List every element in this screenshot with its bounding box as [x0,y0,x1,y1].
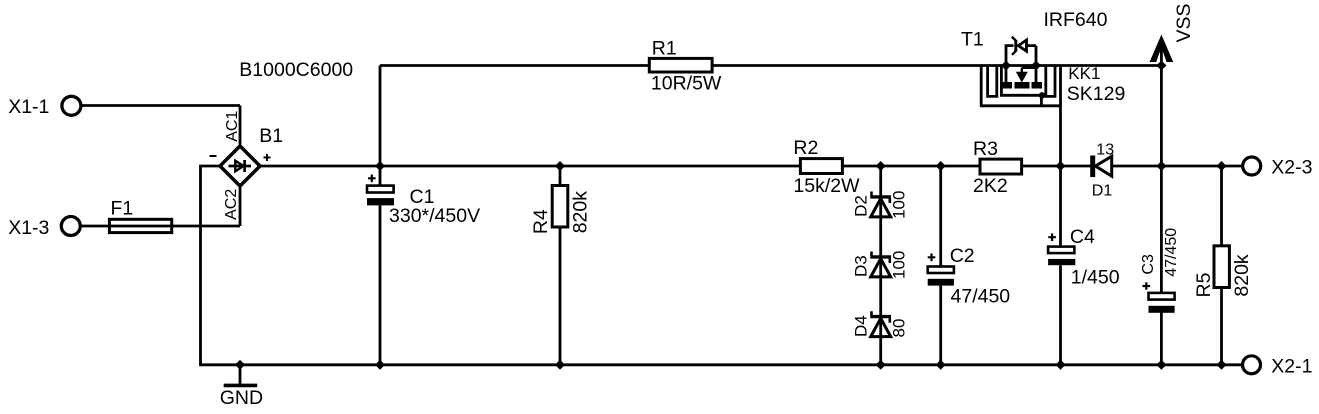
svg-text:IRF640: IRF640 [1044,9,1108,31]
svg-text:10R/5W: 10R/5W [651,72,722,94]
svg-text:B1: B1 [259,125,283,147]
svg-text:B1000C6000: B1000C6000 [239,59,353,81]
svg-text:80: 80 [889,319,908,338]
svg-text:F1: F1 [111,198,134,220]
svg-text:1/450: 1/450 [1071,266,1120,288]
svg-text:R5: R5 [1193,272,1215,297]
svg-text:C3: C3 [1140,254,1157,275]
svg-text:X2-3: X2-3 [1271,157,1312,179]
svg-text:330*/450V: 330*/450V [389,205,480,227]
svg-text:AC2: AC2 [223,189,240,220]
svg-text:820k: 820k [1231,254,1253,297]
svg-text:KK1: KK1 [1068,64,1100,83]
svg-text:D2: D2 [851,195,870,217]
svg-text:2K2: 2K2 [973,175,1008,197]
svg-text:SK129: SK129 [1067,83,1126,105]
svg-text:13: 13 [1096,142,1114,159]
svg-text:R4: R4 [530,209,552,234]
svg-text:X1-1: X1-1 [8,96,49,118]
svg-text:100: 100 [889,251,908,279]
svg-text:X2-1: X2-1 [1271,355,1312,377]
svg-text:820k: 820k [570,191,592,234]
svg-text:R2: R2 [793,137,818,159]
svg-text:GND: GND [220,387,263,409]
svg-text:T1: T1 [961,28,984,50]
svg-text:D1: D1 [1092,182,1113,199]
svg-text:D4: D4 [851,315,870,337]
svg-text:R3: R3 [973,138,998,160]
svg-text:C2: C2 [950,245,975,267]
svg-text:47/450: 47/450 [1163,228,1180,277]
svg-text:R1: R1 [652,38,677,60]
svg-text:D3: D3 [851,255,870,277]
svg-text:47/450: 47/450 [951,286,1011,308]
svg-text:VSS: VSS [1173,3,1195,42]
svg-text:C4: C4 [1070,226,1095,248]
svg-text:100: 100 [889,191,908,219]
svg-text:AC1: AC1 [224,111,241,142]
svg-text:15k/2W: 15k/2W [793,175,860,197]
svg-text:X1-3: X1-3 [8,217,49,239]
